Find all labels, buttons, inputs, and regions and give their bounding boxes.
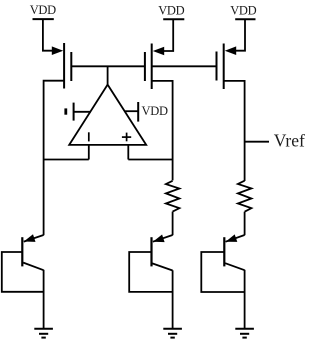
op-amp VDD pin terminal bar bbox=[137, 102, 139, 122]
wire Q3 collector to ground bbox=[244, 270, 246, 329]
VDD supply bar M3 bbox=[235, 18, 255, 20]
op-amp inverting input mark bbox=[88, 132, 90, 141]
op-amp non-inverting input mark bbox=[122, 133, 131, 142]
wire non-inverting input to node B bbox=[128, 159, 172, 161]
battery V1 on op-amp left pin bbox=[66, 103, 74, 121]
transistor Q3 base bar bbox=[223, 237, 225, 266]
wire M1 drain to node A bbox=[44, 81, 65, 160]
transistor M1 (PMOS) bbox=[64, 43, 71, 89]
ground G2 bbox=[163, 329, 182, 338]
transistor M3 source arrow bbox=[225, 46, 236, 55]
wire Q3 emitter diagonal bbox=[226, 235, 245, 242]
VDD supply bar M1 bbox=[33, 18, 54, 20]
transistor Q3 collector diagonal bbox=[225, 263, 244, 270]
transistor M2 (PMOS) bbox=[145, 44, 152, 90]
wire VDD to M1 source bbox=[43, 19, 54, 50]
transistor Q2 base bar bbox=[150, 237, 152, 266]
svg-text:VDD: VDD bbox=[230, 4, 256, 18]
transistor Q1 collector diagonal bbox=[23, 263, 43, 271]
wire Q1 collector to ground bbox=[43, 270, 45, 329]
transistor M1 source arrow bbox=[52, 46, 63, 55]
wire Vref stub bbox=[245, 141, 269, 143]
wire op-amp inverting input stub bbox=[88, 145, 90, 160]
wire Q2 collector to ground bbox=[172, 270, 174, 329]
ground G1 bbox=[34, 329, 53, 338]
transistor M3 (PMOS) bbox=[217, 44, 224, 90]
wire R1 to Q2 emitter bbox=[172, 212, 174, 236]
resistor R2 bbox=[238, 181, 252, 212]
wire Q3 base to collector loop bbox=[201, 252, 244, 292]
VDD supply bar M2 bbox=[163, 18, 184, 20]
wire Q2 emitter diagonal bbox=[153, 235, 173, 242]
svg-text:VDD: VDD bbox=[158, 4, 184, 18]
wire M3 drain to Vref node bbox=[224, 81, 245, 181]
wire R2 to Q3 emitter bbox=[244, 212, 246, 236]
wire VDD to M2 source bbox=[163, 19, 173, 51]
wire Q1 base to collector loop bbox=[2, 252, 44, 292]
transistor Q3 emitter arrow bbox=[226, 234, 238, 242]
transistor Q2 emitter arrow bbox=[153, 235, 165, 243]
ground G3 bbox=[235, 329, 254, 338]
wire gate rail right bbox=[152, 65, 217, 67]
wire node A to Q1 emitter bbox=[43, 160, 45, 236]
wire op-amp VDD pin bbox=[124, 110, 138, 112]
wire battery to op-amp bbox=[74, 111, 90, 113]
wire op-amp output to gate rail bbox=[107, 66, 109, 85]
wire node A to inverting input bbox=[44, 159, 89, 161]
transistor Q2 collector diagonal bbox=[152, 263, 172, 270]
svg-text:VDD: VDD bbox=[30, 3, 56, 17]
wire gate rail left bbox=[71, 65, 145, 67]
wire Q1 emitter diagonal bbox=[24, 235, 44, 242]
transistor Q1 base bar bbox=[21, 237, 23, 266]
svg-text:Vref: Vref bbox=[274, 130, 305, 150]
wire M2 drain to node B and R1 bbox=[152, 81, 173, 180]
wire op-amp non-inverting input stub bbox=[127, 145, 129, 160]
transistor Q1 emitter arrow bbox=[24, 234, 36, 242]
op-amp U1 bbox=[69, 85, 146, 145]
wire VDD to M3 source bbox=[235, 19, 245, 50]
transistor M2 source arrow bbox=[153, 47, 164, 56]
wire Q2 base to collector loop bbox=[129, 252, 172, 292]
resistor R1 bbox=[166, 181, 180, 212]
svg-text:VDD: VDD bbox=[142, 104, 168, 118]
